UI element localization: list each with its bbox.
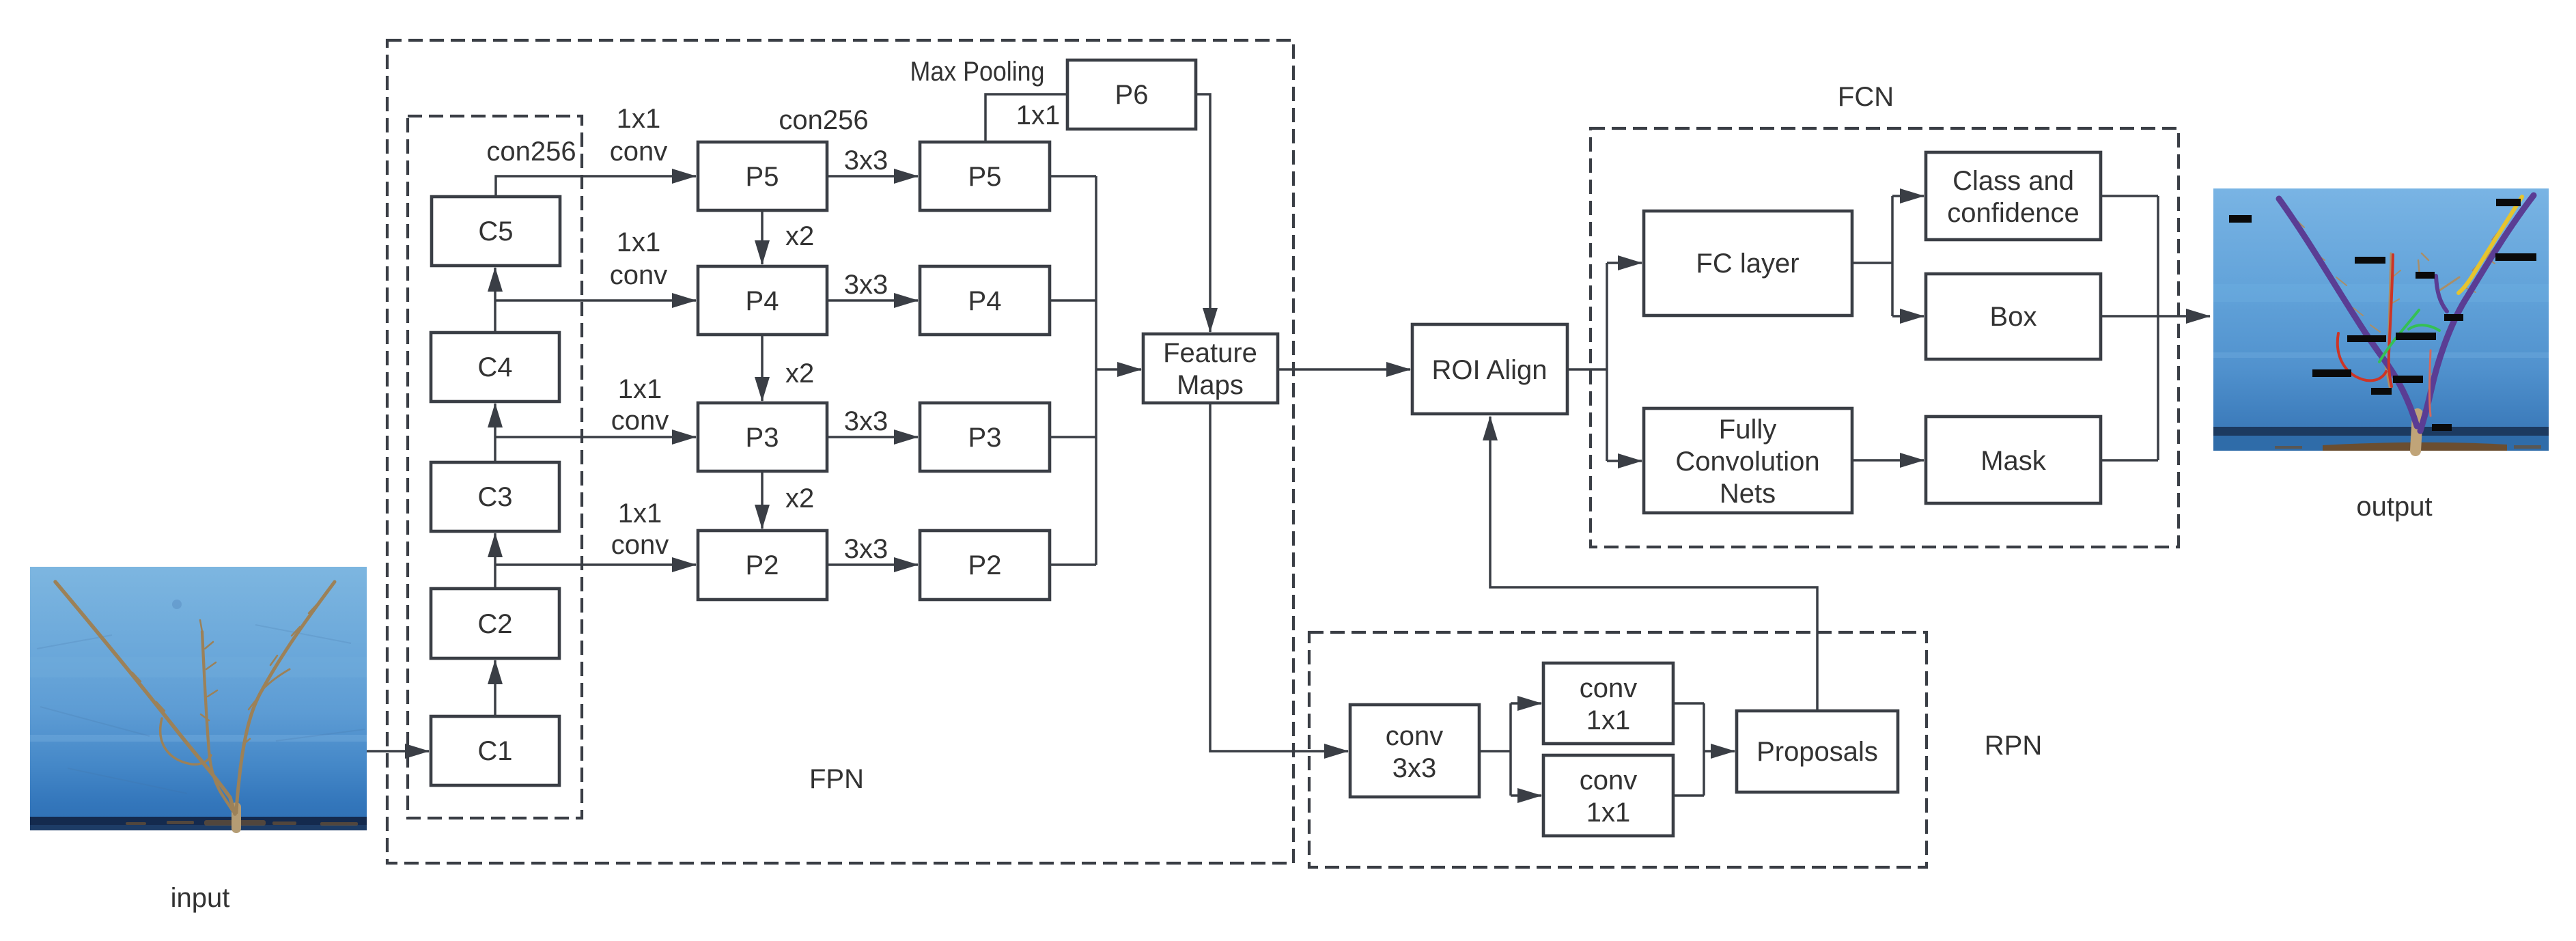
wire C5 top with arrow to P5: [496, 176, 696, 197]
svg-text:P2: P2: [968, 550, 1002, 580]
svg-text:3x3: 3x3: [844, 270, 888, 300]
svg-text:Proposals: Proposals: [1756, 737, 1878, 767]
box Fully Convolution Nets: [1644, 408, 1852, 513]
svg-text:3x3: 3x3: [1392, 753, 1437, 783]
box C4: [431, 333, 559, 402]
green branch one: [2379, 310, 2419, 362]
svg-text:x2: x2: [785, 359, 814, 389]
wire P5 out to bus: [1050, 175, 1096, 178]
arrow Feature Maps to ROI Align: [1278, 368, 1410, 371]
svg-text:1x1: 1x1: [618, 498, 662, 529]
arrow bus to Feature Maps: [1096, 368, 1141, 371]
wire FC layer out split: [1852, 262, 1892, 264]
arrow P5 down x2: [761, 210, 764, 264]
svg-text:C4: C4: [477, 352, 512, 382]
dashed container FCN: [1591, 128, 2179, 547]
svg-text:FC layer: FC layer: [1696, 249, 1799, 279]
svg-text:3x3: 3x3: [844, 406, 888, 436]
arrow Fully Convolution Nets to Mask: [1852, 459, 1924, 462]
svg-text:P6: P6: [1115, 80, 1149, 110]
svg-text:Box: Box: [1990, 302, 2037, 332]
svg-text:Maps: Maps: [1177, 370, 1244, 400]
wire conv 1x1 upper out: [1673, 702, 1704, 705]
red branch center: [2389, 255, 2393, 387]
arrow P2 to P2 3x3: [827, 563, 918, 566]
svg-text:con256: con256: [779, 105, 868, 135]
box Box: [1926, 274, 2101, 359]
box conv 3x3: [1350, 705, 1479, 797]
wire P3 out to bus: [1050, 436, 1096, 438]
dashed container C-column: [408, 116, 582, 818]
box C3: [431, 462, 559, 531]
wire ROI Align out split: [1567, 368, 1607, 371]
svg-text:P5: P5: [968, 162, 1002, 192]
purple branch right: [2420, 195, 2534, 431]
svg-text:x2: x2: [785, 221, 814, 251]
wire P2 out to bus: [1050, 563, 1096, 566]
svg-text:1x1: 1x1: [617, 104, 661, 134]
wire Mask out: [2101, 459, 2158, 462]
box P6: [1067, 60, 1196, 129]
arrow Box out to output: [2101, 315, 2210, 318]
box Feature Maps: [1143, 334, 1278, 403]
svg-text:C3: C3: [477, 482, 512, 512]
wire merge vertical right: [2157, 196, 2159, 460]
dashed container FPN: [387, 40, 1293, 863]
svg-text:Fully: Fully: [1719, 415, 1776, 445]
svg-text:confidence: confidence: [1947, 198, 2079, 228]
wire Proposals top to ROI Align bottom: [1490, 417, 1817, 711]
svg-text:output: output: [2356, 492, 2432, 522]
purple branch left: [2279, 199, 2417, 426]
arrow P4 to P4 3x3: [827, 299, 918, 302]
yellow branch: [2459, 197, 2522, 293]
green branch two: [2409, 325, 2439, 331]
box C1: [431, 716, 559, 785]
svg-text:C2: C2: [477, 609, 512, 639]
arrow P3 to P3 3x3: [827, 436, 918, 438]
svg-text:1x1: 1x1: [617, 227, 661, 257]
arrow C1 to C2: [494, 660, 496, 716]
box Class and confidence: [1926, 152, 2101, 240]
svg-text:conv: conv: [1386, 721, 1444, 751]
arrow lateral to P3: [495, 436, 696, 438]
wire Class and confidence out: [2101, 195, 2158, 197]
red curl branch: [2338, 333, 2386, 380]
svg-text:P3: P3: [746, 423, 779, 453]
box Proposals: [1737, 711, 1898, 792]
box P3 first column: [698, 403, 827, 471]
svg-text:Mask: Mask: [1980, 446, 2047, 476]
output photo: [2213, 188, 2549, 451]
wire P4 out to bus: [1050, 299, 1096, 302]
arrow split to Fully Convolution Nets: [1607, 460, 1642, 462]
svg-text:P3: P3: [968, 423, 1002, 453]
svg-text:Convolution: Convolution: [1675, 447, 1819, 477]
svg-text:FPN: FPN: [809, 764, 864, 794]
svg-text:conv: conv: [1580, 766, 1638, 796]
svg-text:1x1: 1x1: [1586, 705, 1631, 735]
wire P5 top to P6: [985, 94, 1067, 142]
svg-text:conv: conv: [610, 137, 668, 167]
box P2 second column: [920, 531, 1050, 600]
svg-text:Feature: Feature: [1163, 338, 1257, 368]
svg-text:con256: con256: [486, 137, 576, 167]
svg-text:1x1: 1x1: [1016, 100, 1061, 130]
box P2 first column: [698, 531, 827, 600]
wire conv 1x1 lower out: [1673, 794, 1704, 797]
svg-text:P4: P4: [968, 286, 1002, 316]
svg-text:Max Pooling: Max Pooling: [910, 57, 1045, 87]
box C5: [432, 197, 560, 266]
wire bus vertical: [1095, 176, 1097, 565]
arrow P3 down x2: [761, 471, 764, 529]
wire merge vertical RPN: [1703, 703, 1705, 796]
arrow split to conv 1x1 upper: [1511, 702, 1541, 705]
svg-text:1x1: 1x1: [618, 374, 662, 404]
svg-text:C1: C1: [477, 736, 512, 766]
box C2: [431, 589, 559, 658]
box Mask: [1926, 417, 2101, 503]
arrow C4 to C5: [494, 268, 496, 333]
svg-text:conv: conv: [611, 406, 669, 436]
annotation labels: [2229, 199, 2536, 431]
svg-text:1x1: 1x1: [1586, 798, 1631, 828]
box P4 second column: [920, 266, 1050, 335]
box ROI Align: [1412, 324, 1567, 414]
wire P6 to Feature Maps top: [1196, 94, 1210, 332]
box FC layer: [1644, 211, 1852, 315]
svg-text:FCN: FCN: [1838, 82, 1894, 112]
box P4 first column: [698, 266, 827, 335]
svg-text:P2: P2: [746, 550, 779, 580]
arrow lateral to P2: [495, 563, 696, 566]
purple stub branch: [2436, 276, 2447, 311]
svg-text:3x3: 3x3: [844, 534, 888, 564]
svg-text:3x3: 3x3: [844, 145, 888, 175]
svg-text:conv: conv: [610, 260, 668, 290]
box P5 second column: [920, 142, 1050, 210]
svg-text:P4: P4: [746, 286, 779, 316]
arrow split to FC layer: [1607, 262, 1642, 264]
arrow split to Class and confidence: [1892, 195, 1924, 197]
box conv 1x1 upper: [1543, 663, 1673, 744]
arrow C2 to C3: [494, 533, 496, 589]
wire conv 3x3 out split: [1479, 750, 1511, 753]
arrow P5 to P5 3x3: [827, 175, 918, 178]
svg-text:C5: C5: [478, 216, 513, 247]
svg-text:ROI Align: ROI Align: [1432, 355, 1548, 385]
svg-text:Nets: Nets: [1720, 479, 1776, 509]
box conv 1x1 lower: [1543, 755, 1673, 836]
svg-text:RPN: RPN: [1985, 731, 2042, 761]
box P5 first column: [698, 142, 827, 210]
svg-text:x2: x2: [785, 483, 814, 514]
arrow input to C1: [367, 750, 429, 753]
arrow split to conv 1x1 lower: [1511, 794, 1541, 797]
svg-text:input: input: [171, 883, 230, 913]
input photo: [30, 567, 367, 830]
box P3 second column: [920, 403, 1050, 471]
svg-text:conv: conv: [611, 530, 669, 560]
svg-text:Class and: Class and: [1952, 166, 2074, 196]
wire Feature Maps down to conv 3x3: [1210, 403, 1348, 751]
arrow merge to Proposals: [1704, 750, 1735, 753]
arrow C3 to C4: [494, 404, 496, 462]
arrow split to Box: [1892, 315, 1924, 318]
svg-text:conv: conv: [1580, 673, 1638, 703]
dashed container RPN: [1309, 632, 1927, 867]
arrow P4 down x2: [761, 335, 764, 401]
red thin right branch: [2429, 350, 2431, 416]
arrow lateral to P4: [495, 299, 696, 302]
svg-text:P5: P5: [746, 162, 779, 192]
